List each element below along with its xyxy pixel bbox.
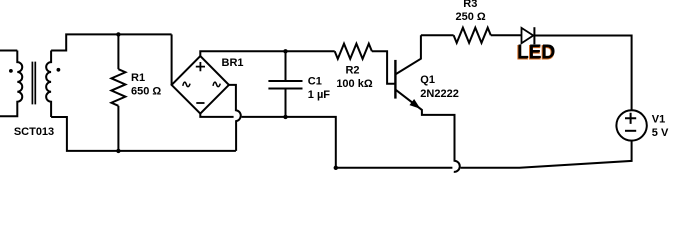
node dot C1 top bbox=[283, 49, 287, 53]
wire R2 to base bbox=[372, 51, 396, 83]
capacitor C1 bottom lead bbox=[285, 89, 287, 117]
transformer T1 secondary coil bbox=[46, 51, 51, 118]
bridge AC tilde right bbox=[213, 82, 220, 86]
wire bridge plus stub and top rail bbox=[200, 51, 334, 56]
LED D1 triangle bbox=[522, 28, 534, 43]
wire collector to R3 bbox=[421, 34, 454, 36]
LED D1 cathode bar bbox=[533, 27, 535, 44]
node dot C1 bottom bbox=[283, 115, 287, 119]
transformer T1 primary coil bbox=[0, 51, 22, 117]
resistor R2 bbox=[335, 44, 372, 59]
V1 minus mark bbox=[625, 130, 636, 132]
wire secondary bottom rail bbox=[51, 117, 236, 151]
svg-text:BR1: BR1 bbox=[222, 57, 244, 69]
transistor Q1 emitter arrow bbox=[410, 100, 419, 108]
wire R1 top lead bbox=[117, 34, 119, 69]
transistor Q1 base bar bbox=[394, 60, 396, 99]
transformer secondary phase dot bbox=[57, 68, 61, 72]
wire bridge minus rail right part bbox=[242, 117, 336, 168]
node dot R1 bottom bbox=[116, 149, 120, 153]
wire bridge AC2 with hop bbox=[229, 85, 241, 151]
wire R3 to LED bbox=[491, 34, 522, 36]
svg-text:100 kΩ: 100 kΩ bbox=[336, 78, 373, 90]
svg-text:1 µF: 1 µF bbox=[308, 89, 331, 101]
svg-text:R1: R1 bbox=[131, 72, 145, 84]
wire secondary top to top rail bbox=[51, 34, 172, 50]
node dot ground corner bbox=[334, 166, 338, 170]
resistor R1 bbox=[111, 69, 125, 106]
svg-text:650 Ω: 650 Ω bbox=[131, 86, 161, 98]
wire V1 bottom return bbox=[461, 141, 632, 168]
svg-text:R2: R2 bbox=[345, 65, 359, 77]
wire bridge AC1 vertical bbox=[171, 34, 173, 85]
wire primary top lead bbox=[0, 50, 17, 52]
bridge minus mark bbox=[196, 102, 204, 104]
voltage source V1 body bbox=[616, 110, 646, 140]
bridge AC tilde left bbox=[183, 82, 190, 86]
transformer primary phase dot bbox=[9, 69, 13, 73]
svg-text:LED: LED bbox=[517, 42, 555, 63]
svg-text:2N2222: 2N2222 bbox=[420, 88, 459, 100]
bridge rectifier BR1 body bbox=[172, 56, 229, 114]
capacitor C1 plates bbox=[268, 81, 302, 89]
svg-text:250 Ω: 250 Ω bbox=[455, 11, 485, 23]
svg-text:R3: R3 bbox=[463, 0, 477, 10]
wire R1 bottom lead bbox=[117, 106, 119, 151]
wire ground rail to emitter hop bbox=[336, 167, 453, 169]
svg-text:V1: V1 bbox=[652, 114, 665, 126]
svg-text:5 V: 5 V bbox=[652, 127, 669, 139]
svg-text:SCT013: SCT013 bbox=[14, 126, 54, 138]
wire LED to V1 bbox=[534, 36, 631, 111]
node dot R1 top bbox=[116, 32, 120, 36]
wire bridge minus stub and rail left part bbox=[200, 114, 233, 117]
bridge plus mark bbox=[196, 62, 205, 71]
transistor Q1 collector bbox=[395, 35, 421, 74]
V1 plus mark bbox=[625, 113, 636, 124]
transistor Q1 emitter bbox=[395, 90, 459, 172]
svg-text:Q1: Q1 bbox=[420, 74, 435, 86]
transformer core bbox=[32, 62, 35, 105]
resistor R3 bbox=[454, 28, 491, 43]
capacitor C1 top lead bbox=[285, 51, 287, 80]
svg-text:C1: C1 bbox=[308, 76, 322, 88]
